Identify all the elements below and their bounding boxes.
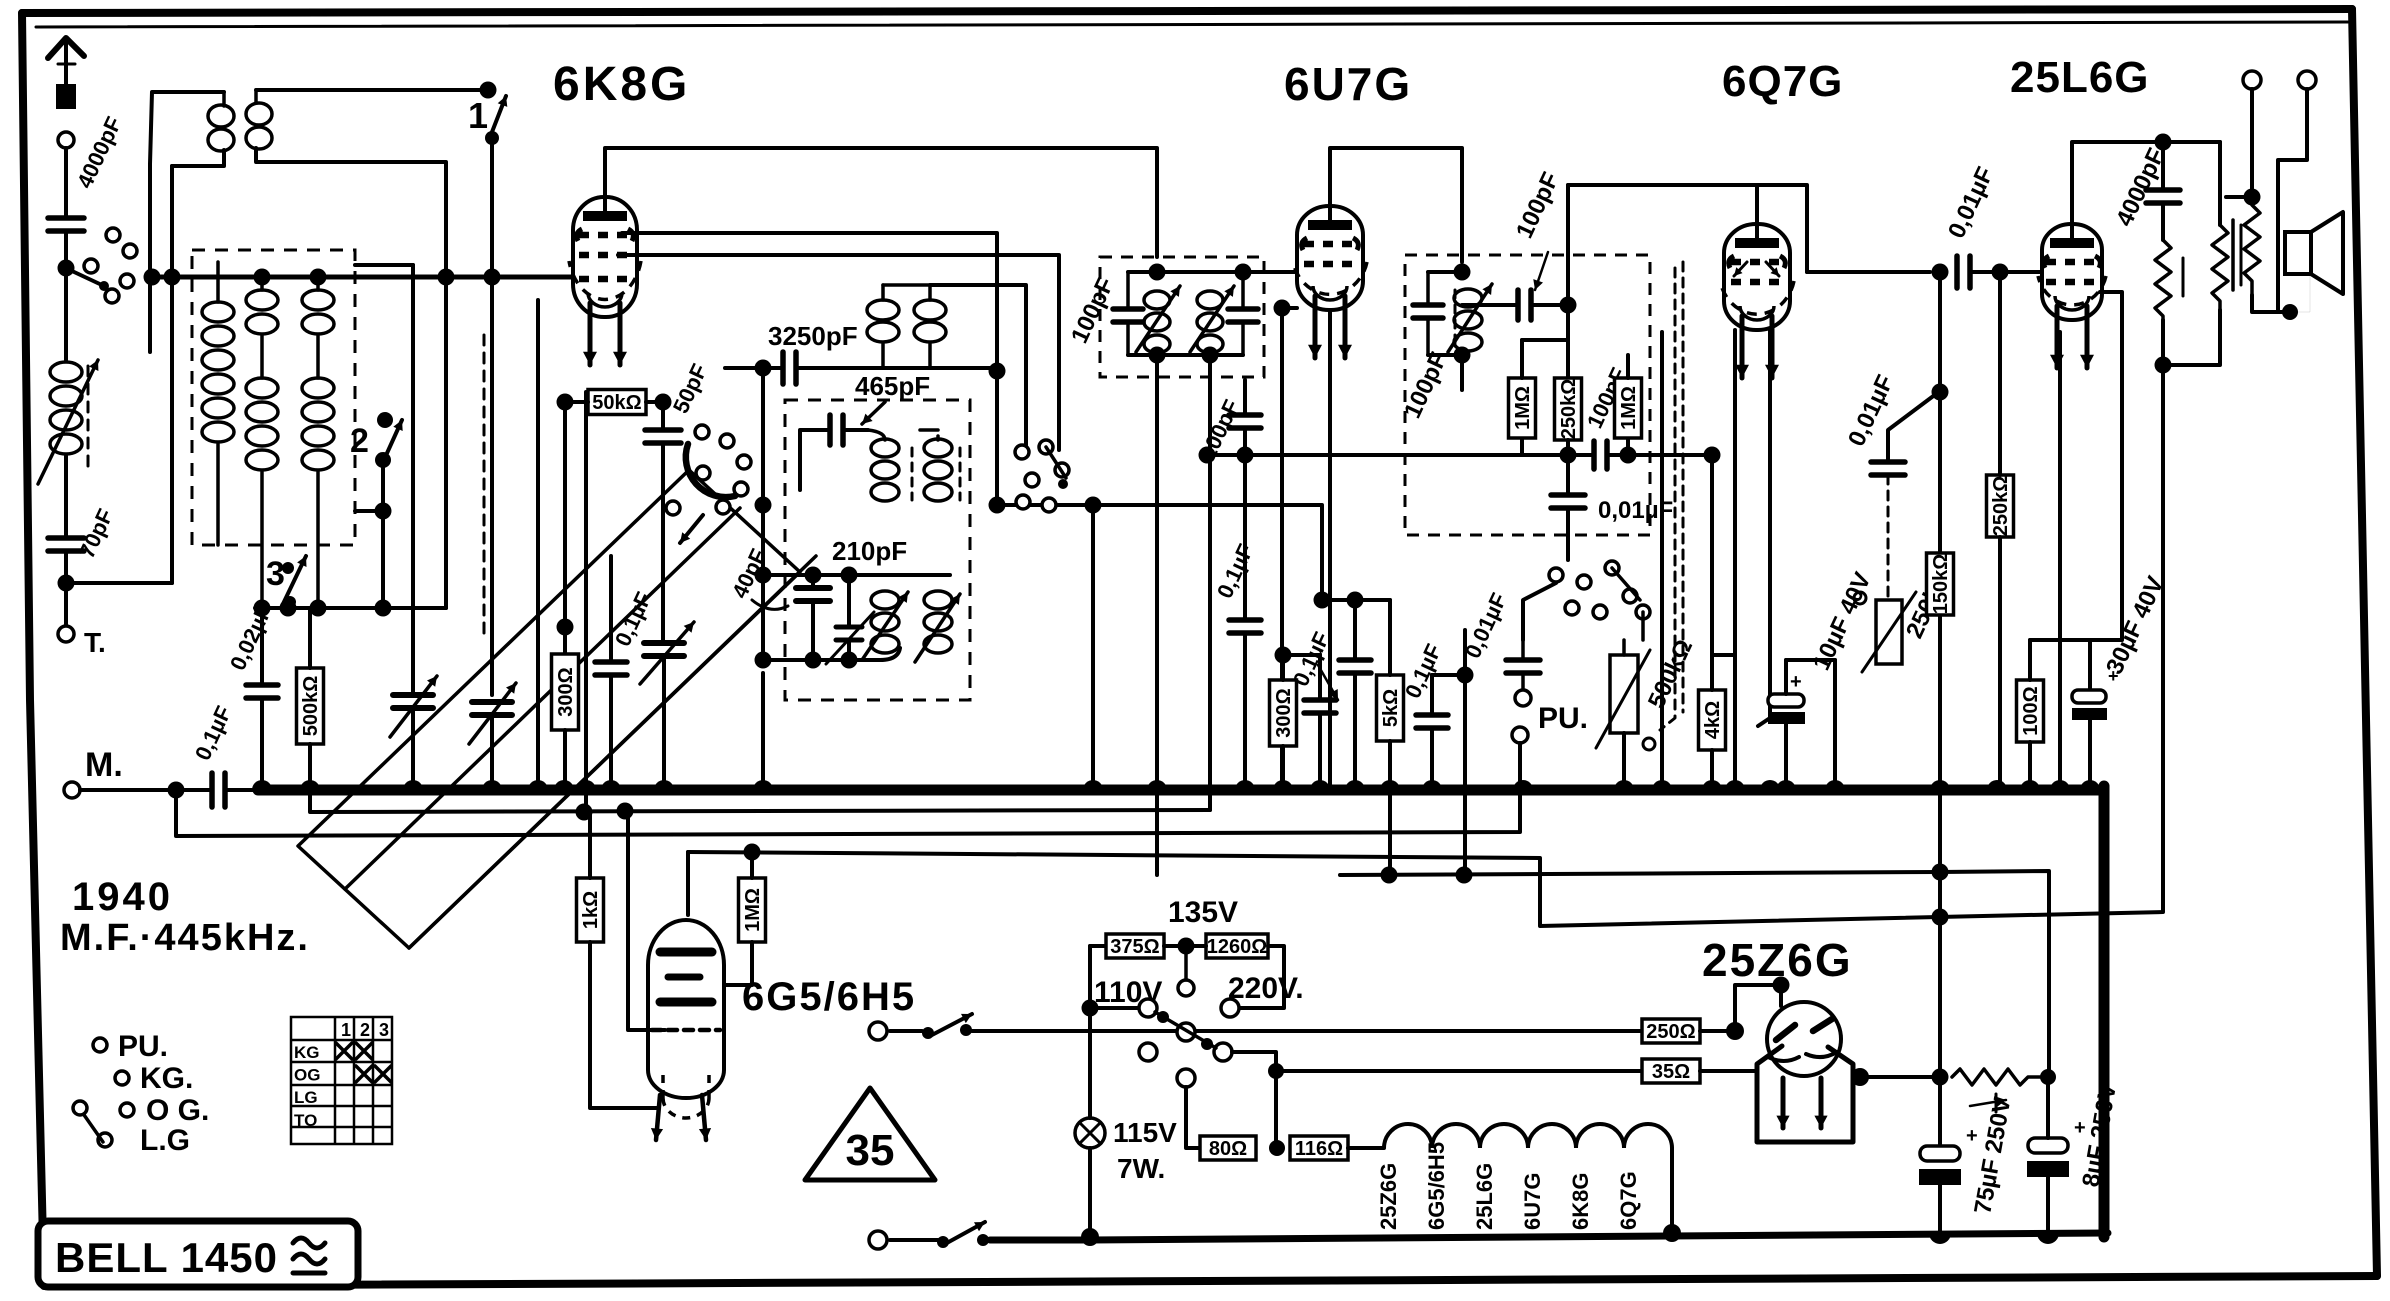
svg-text:35: 35: [846, 1126, 895, 1175]
wire AVC: [1207, 453, 1560, 457]
coil oscillator grid b: [924, 591, 952, 609]
wire: [66, 581, 172, 585]
svg-text:+: +: [2074, 1117, 2086, 1139]
wire: [1388, 600, 1392, 675]
coil oscillator plate a: [867, 300, 899, 320]
terminal 220V: [1221, 999, 1239, 1017]
wire cathode 25Z6G: [1853, 1075, 1940, 1079]
svg-text:500kΩ: 500kΩ: [300, 676, 322, 737]
wire: [1243, 455, 1247, 620]
wire: [1353, 600, 1357, 660]
capacitor variable (gang section 3): [644, 643, 684, 656]
capacitor 100pF (det): [1594, 441, 1607, 469]
capacitor 0,1uF (screen): [1339, 660, 1371, 673]
capacitor 50pF: [645, 430, 681, 443]
wire main negative bus: [258, 785, 2104, 796]
terminal speaker a: [2243, 71, 2261, 89]
wire: [1281, 655, 1285, 680]
wire return A (AVC): [310, 790, 1210, 812]
terminal PU a: [1515, 690, 1531, 706]
coil antenna variable: [50, 362, 82, 382]
coil IF1 secondary: [1197, 291, 1223, 309]
wire: [1428, 270, 1462, 274]
svg-text:3: 3: [379, 1020, 389, 1040]
svg-text:300Ω: 300Ω: [1273, 688, 1295, 737]
svg-text:2: 2: [350, 422, 369, 460]
capacitor 210pF: [796, 588, 830, 601]
coil box (dashed): [192, 250, 355, 545]
svg-text:6K8G: 6K8G: [1568, 1173, 1593, 1230]
resistor 1260Ω: [1206, 934, 1268, 958]
resistor 1kΩ: [577, 878, 604, 942]
svg-text:1260Ω: 1260Ω: [1207, 936, 1268, 958]
capacitor IF1 primary: [1113, 309, 1143, 322]
junctions on bottom power line: [1081, 1228, 1099, 1246]
resistor 250kΩ (diode load): [1555, 378, 1582, 440]
tube 6G5/6H5: [648, 920, 724, 1098]
junction: [1275, 647, 1292, 664]
svg-text:KG.: KG.: [140, 1062, 193, 1095]
wire: [1566, 455, 1570, 495]
svg-text:1: 1: [341, 1020, 351, 1040]
svg-text:+: +: [1790, 671, 1802, 693]
svg-text:115V: 115V: [1113, 1117, 1177, 1148]
wire: [1998, 272, 2002, 475]
wire: [225, 788, 258, 792]
svg-text:O G.: O G.: [146, 1094, 209, 1127]
coil IF1 primary: [1144, 291, 1170, 309]
coil IF2 secondary: [1454, 289, 1482, 307]
capacitor 0,1uF (osc cathode): [595, 662, 627, 675]
wire: [1318, 655, 1322, 700]
svg-text:PU.: PU.: [1538, 702, 1588, 735]
coil band 3: [316, 277, 320, 290]
wire return B: [176, 790, 1520, 836]
IF transformer 1 box (dashed): [1100, 257, 1264, 377]
wire: [2226, 195, 2252, 199]
wire: [1126, 272, 1130, 309]
svg-text:PU.: PU.: [118, 1030, 168, 1063]
wire: [1833, 660, 1837, 790]
svg-text:4kΩ: 4kΩ: [1702, 701, 1724, 739]
junction: [58, 260, 75, 277]
svg-text:25L6G: 25L6G: [1472, 1163, 1497, 1230]
resistor 4kΩ: [1699, 690, 1726, 750]
svg-text:5kΩ: 5kΩ: [1380, 689, 1402, 727]
junction: [1347, 592, 1364, 609]
tube 6U7G: [1297, 206, 1363, 310]
wire: [686, 852, 690, 915]
wire: [2163, 310, 2220, 365]
svg-text:M.F.·445kHz.: M.F.·445kHz.: [60, 917, 310, 959]
svg-text:3: 3: [266, 555, 285, 593]
svg-text:1MΩ: 1MΩ: [1618, 386, 1640, 430]
svg-text:1MΩ: 1MΩ: [742, 888, 764, 932]
wire: [381, 460, 385, 608]
wire: [255, 606, 446, 610]
resistor 250Ω: [1642, 1019, 1700, 1043]
svg-text:375Ω: 375Ω: [1110, 936, 1159, 958]
junction: [58, 575, 75, 592]
capacitor IF1 secondary: [1228, 309, 1258, 322]
svg-text:TO: TO: [294, 1111, 317, 1130]
wire plate 6Q7G: [1757, 185, 1807, 272]
wire: [609, 556, 613, 662]
tube 25Z6G: [1767, 1002, 1841, 1076]
resistor shunt (zigzag): [2155, 240, 2171, 320]
wire: [1700, 1069, 1757, 1073]
title box BELL 1450: [38, 1221, 358, 1287]
terminal antenna: [58, 132, 74, 148]
junctions on bus: [252, 780, 272, 790]
wire: [2161, 142, 2165, 190]
junction: [1560, 297, 1577, 314]
capacitor electrolytic 30uF 40V: [2072, 690, 2106, 703]
junction: [1274, 300, 1291, 317]
svg-text:116Ω: 116Ω: [1295, 1138, 1343, 1160]
wire: [661, 402, 665, 430]
svg-text:6U7G: 6U7G: [1284, 58, 1412, 110]
wire: [1523, 583, 1556, 640]
wire: [750, 852, 754, 878]
wire: [2000, 270, 2042, 274]
svg-text:M.: M.: [85, 746, 123, 784]
resistor 116Ω: [1290, 1136, 1348, 1160]
switch oscillator rotary: [695, 425, 709, 439]
svg-text:1kΩ: 1kΩ: [580, 891, 602, 929]
svg-text:465pF: 465pF: [855, 371, 930, 401]
switch band (IF side): [1015, 445, 1029, 459]
coil oscillator plate b: [914, 300, 946, 320]
wire: [1186, 1087, 1200, 1148]
wire: [1568, 440, 1594, 455]
tube 6K8G: [573, 197, 637, 317]
tube 25L6G: [2042, 224, 2102, 320]
wire: [1938, 790, 1942, 1148]
wire antenna switch feed: [256, 88, 488, 92]
resistor 5kΩ: [1377, 675, 1404, 741]
capacitor IF2 secondary: [1413, 305, 1443, 318]
resistor 80Ω: [1200, 1136, 1256, 1160]
wire mains feed: [972, 1029, 1642, 1033]
coil band 1: [216, 262, 220, 302]
svg-text:L.G: L.G: [140, 1124, 190, 1157]
wire: [2088, 640, 2092, 690]
capacitor electrolytic 75uF 250V: [1920, 1146, 1960, 1161]
capacitor PU coupling: [1506, 660, 1540, 673]
wire: [2088, 720, 2092, 790]
coil band 2: [260, 277, 264, 290]
wire: [761, 368, 765, 505]
svg-text:KG: KG: [294, 1043, 320, 1062]
resistor 100Ω: [2017, 680, 2044, 742]
wire: [1626, 355, 1630, 378]
resistor 300Ω (6U7G cathode): [1270, 680, 1297, 746]
svg-text:T.: T.: [84, 627, 106, 658]
wire: [2028, 742, 2032, 790]
wire: [761, 505, 765, 660]
wire: [490, 138, 494, 277]
capacitor 4000pF (antenna): [48, 218, 84, 231]
wire grid 6K8G: [152, 275, 573, 280]
junction: [1199, 447, 1216, 464]
svg-text:25L6G: 25L6G: [2010, 53, 2150, 102]
capacitor 4000pF (output): [2146, 190, 2180, 203]
wire: [1628, 455, 1712, 655]
junction: [2155, 357, 2172, 374]
wire: [1784, 660, 1788, 694]
svg-text:LG: LG: [294, 1088, 318, 1107]
speaker: [2285, 232, 2311, 274]
wire: [2218, 142, 2222, 225]
wire: [1520, 340, 1524, 378]
wire: [662, 657, 666, 790]
wire: [1241, 272, 1245, 309]
capacitor 0,01uF (det): [1551, 495, 1585, 508]
diode plates 6Q7G: [1734, 262, 1747, 276]
wire: [170, 166, 174, 583]
svg-text:6K8G: 6K8G: [553, 58, 690, 111]
junction: [755, 567, 772, 584]
wire: [1758, 330, 1770, 726]
service triangle 35: [805, 1088, 935, 1180]
wire plate 25L6G: [2072, 142, 2163, 224]
wire cathode 6U7G: [1328, 310, 1332, 790]
junction: [989, 497, 1006, 514]
svg-text:300Ω: 300Ω: [555, 667, 577, 716]
switch contact 1: [480, 82, 497, 99]
capacitor variable (gang section 2): [472, 702, 512, 715]
band table: [291, 1017, 392, 1144]
wire: [2058, 332, 2062, 790]
wire: [2046, 1077, 2050, 1138]
junction: [2244, 189, 2261, 206]
wire: [1090, 944, 1106, 948]
wire: [1710, 655, 1714, 690]
wire: [490, 716, 494, 790]
resistor 50kΩ: [588, 390, 646, 415]
switch mains b: [869, 1231, 887, 1249]
wire: [588, 812, 592, 878]
junction: [1178, 938, 1195, 955]
tube 6Q7G: [1724, 224, 1790, 330]
wire: [930, 285, 1026, 445]
junction: [144, 269, 161, 286]
wire: [563, 730, 567, 790]
wire screen 6K8G: [622, 233, 997, 371]
capacitor 70pF: [48, 538, 84, 551]
junction: [576, 804, 593, 821]
svg-text:6G5/6H5: 6G5/6H5: [742, 975, 916, 1019]
resistor 1MΩ (diode load a): [1509, 378, 1536, 438]
gang link frame: [298, 470, 800, 948]
wire: [1622, 640, 1626, 655]
svg-text:220V.: 220V.: [1228, 972, 1304, 1005]
wire: [1462, 303, 1518, 307]
wire: [1660, 332, 1664, 790]
wire grid 6U7G: [1243, 270, 1297, 274]
potentiometer 250kΩ (tone): [1876, 600, 1902, 664]
svg-text:6U7G: 6U7G: [1520, 1173, 1545, 1230]
wire: [811, 575, 815, 588]
wire: [64, 231, 68, 360]
wire: [1670, 1148, 1674, 1233]
wire: [148, 164, 152, 352]
potentiometer 500kΩ (volume): [1610, 655, 1638, 733]
wire: [260, 608, 264, 685]
capacitor 100pF (coupling): [1518, 290, 1531, 320]
wire: [444, 277, 448, 608]
capacitor 0,01uF (coupling): [1957, 256, 1970, 288]
junction: [168, 782, 185, 799]
coil oscillator tuned a: [871, 439, 899, 457]
svg-text:35Ω: 35Ω: [1652, 1061, 1690, 1083]
coil antenna secondary: [246, 103, 272, 125]
wire: [1972, 270, 2000, 274]
wire bottom power line: [990, 1233, 2108, 1240]
wire: [1282, 308, 1297, 790]
resistor 1MΩ: [739, 878, 766, 942]
resistor output load (zigzag): [2212, 225, 2228, 310]
resistor 375Ω: [1106, 934, 1164, 958]
wire: [1208, 355, 1212, 455]
junction: [755, 360, 772, 377]
wire: [1733, 330, 1737, 790]
wire: [1463, 630, 1467, 675]
wire: [308, 608, 312, 668]
switch wave-band (antenna): [106, 228, 120, 242]
wire cathode 25L6G: [2030, 292, 2122, 640]
capacitor electrolytic 8uF 250V: [2028, 1138, 2068, 1153]
wire: [1888, 391, 1940, 462]
wire plate 6U7G: [1330, 148, 1462, 262]
wire: [1164, 944, 1206, 948]
wire: [1641, 612, 1645, 640]
wire: [883, 366, 997, 370]
svg-text:80Ω: 80Ω: [1209, 1138, 1247, 1160]
svg-text:25Z6G: 25Z6G: [1376, 1163, 1401, 1230]
wire: [1430, 675, 1434, 715]
svg-text:3250pF: 3250pF: [768, 321, 858, 351]
switch voltage selector: [1139, 999, 1157, 1017]
terminal PU b: [1512, 727, 1528, 743]
capacitor 0,01uF (tone): [1871, 462, 1905, 475]
wire: [618, 255, 1059, 450]
svg-text:210pF: 210pF: [832, 536, 907, 566]
wire: [80, 788, 212, 792]
wire: [1938, 1185, 1942, 1233]
wire B+ 6Q7G: [1938, 272, 1942, 790]
resistor filter (zigzag): [1952, 1069, 2040, 1085]
junction: [1992, 264, 2009, 281]
coil oscillator tuned b: [924, 439, 952, 457]
wire: [628, 810, 665, 1030]
svg-text:BELL 1450: BELL 1450: [55, 1234, 278, 1281]
svg-text:100Ω: 100Ω: [2020, 686, 2042, 735]
resistor 500kΩ: [297, 668, 324, 744]
svg-text:250Ω: 250Ω: [1646, 1021, 1695, 1043]
wire: [1426, 272, 1430, 305]
terminal T (earth): [58, 626, 74, 642]
selector PU/KG/OG/LG: [93, 1038, 107, 1052]
terminal tap: [1178, 980, 1194, 996]
wire: [2252, 295, 2290, 312]
wire: [1090, 1006, 1139, 1010]
wire plate 25Z6G: [1735, 985, 1781, 1031]
antenna: [48, 38, 84, 58]
resistor 35Ω: [1642, 1059, 1700, 1083]
svg-text:250kΩ: 250kΩ: [1990, 476, 2012, 537]
capacitor 3250pF: [783, 352, 796, 384]
wire: [1998, 688, 2002, 790]
capacitor 0,02uF: [246, 685, 278, 698]
junction: [1149, 264, 1166, 281]
capacitor 100pF (AVC): [1229, 415, 1261, 428]
wire: [1243, 380, 1247, 415]
wire: [1274, 1071, 1278, 1148]
junction: [2155, 134, 2172, 151]
wire shielded grid 6Q7G: [1660, 268, 1675, 730]
wire: [800, 430, 830, 490]
capacitor electrolytic 10uF 40V: [1768, 694, 1804, 707]
wire heater feed b: [1232, 1052, 1642, 1071]
junction: [254, 600, 271, 617]
junction: [1932, 384, 1949, 401]
svg-text:6Q7G: 6Q7G: [1616, 1171, 1641, 1230]
wire: [763, 648, 900, 660]
wire: [565, 400, 588, 404]
capacitor 0,1uF (6U7G cathode): [1304, 700, 1336, 713]
switch PU/radio: [1549, 568, 1563, 582]
wire: [64, 551, 68, 626]
wire: [1348, 1146, 1384, 1150]
wire: [584, 392, 588, 812]
detector box (dashed): [1405, 255, 1650, 535]
svg-text:7W.: 7W.: [1117, 1153, 1165, 1184]
svg-text:OG: OG: [294, 1066, 320, 1085]
junction: [744, 844, 761, 861]
resistor 150kΩ: [1927, 553, 1954, 615]
field coil (zigzag): [2244, 205, 2260, 295]
wire: [1568, 183, 1757, 187]
wire: [1700, 1029, 1735, 1033]
wire: [1521, 640, 1525, 660]
junction: [557, 394, 574, 411]
wire return D: [1340, 871, 2049, 1077]
capacitor 0,1uF (decoupling): [1416, 715, 1448, 728]
svg-text:135V: 135V: [1168, 896, 1238, 929]
capacitor trimmer: [836, 627, 862, 640]
wire: [1566, 185, 1570, 455]
wire: [1088, 946, 1092, 1118]
svg-text:1940: 1940: [72, 875, 173, 919]
heater chain: [1384, 1124, 1672, 1148]
wire: [1128, 270, 1243, 274]
oscillator box (dashed): [785, 400, 970, 700]
resistor 250kΩ (grid 25L6G): [1987, 475, 2014, 537]
wire: [288, 602, 292, 608]
capacitor 465pF: [830, 415, 843, 445]
lamp 115V 7W: [1075, 1118, 1105, 1148]
junction: [1454, 264, 1471, 281]
capacitor 0,1uF (AVC): [1229, 620, 1261, 633]
wire: [1887, 475, 1890, 600]
wire plate 6K8G to IF1: [605, 148, 1157, 257]
svg-text:6G5/6H5: 6G5/6H5: [1424, 1142, 1449, 1230]
wire: [1155, 355, 1159, 790]
wire: [536, 300, 540, 790]
wire: [847, 575, 851, 627]
